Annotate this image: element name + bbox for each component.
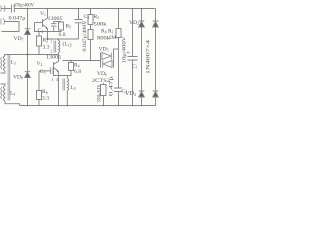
svg-text:(L1): (L1) [63,41,72,49]
wire input 2 [2,22,20,32]
svg-text:2CTS2: 2CTS2 [92,78,110,84]
wire R column bottom [90,40,92,61]
svg-text:470p/400V: 470p/400V [14,2,35,8]
diac block left vertical [100,53,102,68]
wire R7 bottom [103,96,105,106]
node midpoint junction [27,54,29,56]
svg-text:13005: 13005 [46,55,61,61]
wire bottom rail [20,105,156,107]
svg-text:10μ/400V: 10μ/400V [122,37,128,64]
resistor R800k [88,30,93,40]
svg-text:6.8: 6.8 [74,69,81,75]
resistor R5 [59,22,64,30]
wire R2 column top [90,9,92,15]
wire VD8 top [27,55,29,72]
svg-text:3.3: 3.3 [42,96,49,102]
wire C4 stubs [53,22,55,32]
wire top rail [14,8,155,10]
svg-text:1: 1 [51,39,53,43]
svg-text:1M: 1M [109,35,117,41]
wire L1 bottom to V2 collector [58,53,60,60]
node mid bus junction [47,38,49,40]
winding lamp-side clipped arcs lower [1,87,2,99]
svg-text:13005: 13005 [48,16,63,22]
diode VD6 (hollow) [103,61,112,68]
resistor R7 [101,85,107,96]
winding lamp-side clipped arcs upper [1,57,2,69]
diode VD3 bottom A [139,91,145,97]
wire V1 base [35,22,43,24]
winding L3 arcs [4,56,6,72]
svg-text:6.8: 6.8 [59,32,66,38]
wire C1 column bottom [132,60,134,106]
diode VD8 [25,72,31,78]
wire L3 bottom off edge [1,71,6,73]
wire R4 top [70,61,72,63]
svg-text:1N4007×4: 1N4007×4 [146,40,152,74]
wire lamp stub down [4,55,6,57]
svg-text:0.47μ: 0.47μ [109,76,115,96]
diode VD2 top A [139,21,145,27]
wire bridge rail A [141,9,143,106]
winding L2 core bars [63,79,65,91]
resistor R2 [88,15,93,25]
wire diac top to R1 column [114,48,119,50]
wire diac bottom down [103,83,105,85]
connector mark left edge top [1,6,5,12]
wire C1 column top [132,9,134,57]
wire C2 bottom [118,92,120,106]
wire R3 bottom to midpoint wire [38,46,40,55]
transistor V1 emitter arrow [46,27,48,29]
svg-text:3: 3 [52,78,54,82]
wire R1 column top [118,9,120,29]
capacitor C1 plates [128,57,138,61]
winding L1 core bars [54,41,56,53]
wire drive bus y60 [63,60,101,62]
transistor V2 collector diag wire [58,60,60,62]
wire VD7 branch vertical [27,9,29,29]
wire base drop [35,23,48,32]
wire L4 top off edge [1,84,6,86]
wire R2 to R1b [90,25,92,30]
capacitor C3 plates [75,20,83,23]
resistor R1 [116,29,121,38]
transistor V1 collector wire [47,9,49,19]
wire R5 bottom to node [48,30,62,32]
svg-text:0.047μ/400V: 0.047μ/400V [82,21,88,52]
wire C3 top [78,9,80,20]
wire C3 bottom [78,23,80,39]
wire V1 emitter down [47,29,49,40]
capacitor CT 470p/400V plates [12,5,15,13]
winding L2 arcs [67,79,68,91]
svg-text:335k/63V: 335k/63V [97,85,103,103]
wire V2 emitter down [58,72,60,106]
winding L1 arcs [59,41,60,53]
transistor V1 [43,18,48,29]
svg-text:2: 2 [51,49,53,53]
resistor R4 [69,63,74,71]
diode VD1 top B [153,21,159,27]
wire L3 top [4,55,7,56]
diode VD4b bottom B [153,91,159,97]
svg-text:0.047μ: 0.047μ [9,15,26,21]
diac block right vertical [113,49,115,68]
resistor R6 [37,91,42,100]
wire L2 bottom [66,91,68,106]
capacitor C5 plates [51,68,53,75]
wire C4 R5 top bar [54,21,62,23]
wire VD8 bottom [27,78,29,106]
wire L4 bottom to rail [5,101,20,106]
wire R3 top [38,32,40,37]
wire top rail left stub [2,8,12,10]
node dots on rails and buses [27,8,143,107]
transistor V2 [54,61,59,72]
svg-text:500k: 500k [94,21,107,27]
polarity plus for C1 [127,51,130,54]
resistor R3 [37,36,42,46]
diode VD7 [25,29,31,35]
capacitor C2 plates [114,88,122,92]
wire bridge rail B [155,9,157,106]
wire VD7 to midpoint [27,35,29,55]
connector mark left edge second [1,19,5,25]
svg-text:3.3: 3.3 [43,44,50,50]
wire R6 vertical [38,71,40,91]
wire midpoint horizontal [5,54,59,56]
winding L4 arcs [4,86,6,102]
svg-text:4: 4 [56,78,58,82]
transistor V2 emitter arrow [57,70,59,72]
wire R6 bottom [38,100,40,106]
diode VD5 (hollow) [102,53,111,60]
wire R4 to L2 [54,71,72,79]
wire C5 left [39,70,51,72]
transformer core bars left [8,55,10,101]
capacitor C4 plates [51,24,57,26]
wire mid bus horizontal [48,38,79,40]
wire L1 top [58,39,60,41]
wire R1 column middle [118,38,120,89]
